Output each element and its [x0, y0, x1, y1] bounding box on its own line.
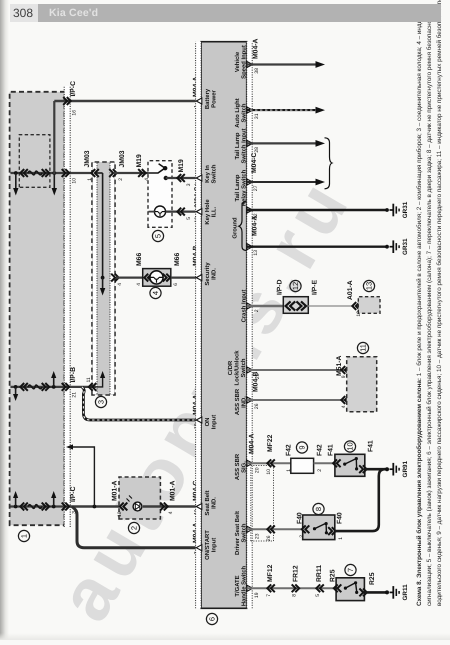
- node 5 (circled): [152, 230, 163, 241]
- wire: ASS SBR IND: [247, 399, 347, 401]
- svg-text:IND.: IND.: [240, 396, 247, 408]
- node junction: [14, 505, 18, 509]
- svg-text:9: 9: [298, 445, 307, 449]
- connector MF22: [267, 459, 275, 467]
- pin arrowheads into module (bottom pins): [247, 62, 253, 592]
- node 6 (circled): [206, 613, 217, 624]
- wire: feed down to LED: [70, 505, 131, 508]
- connector MF12: [267, 584, 275, 592]
- svg-text:JM03: JM03: [84, 150, 91, 167]
- svg-text:5: 5: [154, 234, 163, 238]
- wire: F42 to F41: [314, 462, 338, 464]
- wire: lamp stub to box edge: [149, 211, 155, 213]
- node 9 (circled): [296, 442, 307, 453]
- svg-text:M19: M19: [136, 154, 143, 167]
- pin arrowheads into module (top pins): [196, 98, 202, 551]
- svg-text:ASS SBR: ASS SBR: [234, 453, 241, 480]
- module internal labels (top row): [204, 88, 218, 560]
- svg-text:7: 7: [266, 594, 272, 597]
- svg-text:GR31: GR31: [402, 238, 409, 255]
- wire to other circuit (left arrow): [52, 173, 57, 196]
- node 11 (circled): [357, 342, 368, 353]
- svg-text:20: 20: [255, 467, 261, 473]
- node 13 (circled): [363, 280, 374, 291]
- svg-text:I/P-E: I/P-E: [312, 279, 319, 295]
- thin wire inside JM03 with right arrow: [96, 371, 105, 387]
- fuse box (interior junction block): [10, 92, 65, 525]
- joint connector JM03: [92, 162, 115, 395]
- wire: ON/START branch (thick): [72, 507, 202, 548]
- node junction (to cluster): [93, 505, 97, 509]
- wire: tail lamp switch input with arrow: [247, 140, 325, 147]
- svg-text:сигнализации; 5 – выключатель: сигнализации; 5 – выключатель (замок) за…: [426, 10, 433, 606]
- brace grouping tail lamp wires: [325, 138, 333, 189]
- svg-text:13: 13: [365, 282, 374, 290]
- svg-text:26: 26: [254, 403, 260, 409]
- wire: ground pin 13: [247, 240, 399, 253]
- svg-text:M04-C: M04-C: [251, 153, 258, 173]
- connector strip top: [196, 42, 202, 609]
- svg-text:3: 3: [186, 183, 192, 186]
- svg-text:I/P-B: I/P-B: [70, 367, 77, 383]
- svg-text:Driver Seat Belt: Driver Seat Belt: [234, 511, 241, 555]
- connector M01-A pin 4: [160, 503, 168, 511]
- connector JM03 pin 11: [89, 383, 97, 391]
- module internal labels (bottom row): [227, 45, 247, 606]
- svg-text:Switch: Switch: [240, 358, 247, 377]
- svg-text:Lock/Unlock: Lock/Unlock: [234, 350, 241, 386]
- svg-text:1: 1: [338, 537, 344, 540]
- page left edge scan shading: [0, 0, 9, 640]
- svg-text:1: 1: [286, 469, 292, 472]
- svg-text:F40: F40: [337, 512, 344, 524]
- wire: F41 to ground GR91: [365, 468, 388, 471]
- connector M51-A pin 9: [341, 366, 349, 374]
- wire: ground pin 12: [247, 204, 399, 217]
- fuse box F42: [291, 458, 314, 473]
- svg-text:MF12: MF12: [267, 564, 274, 582]
- fuse (seat belt): [20, 503, 49, 511]
- key hole illumination lamp: [154, 206, 165, 217]
- svg-text:Auto Light: Auto Light: [234, 98, 241, 127]
- svg-text:Input: Input: [210, 415, 217, 429]
- svg-text:GR31: GR31: [402, 201, 409, 218]
- svg-text:ILL.: ILL.: [210, 206, 217, 217]
- svg-text:Power: Power: [210, 89, 217, 107]
- svg-text:I/P-C: I/P-C: [70, 81, 77, 97]
- svg-text:ASS SBR: ASS SBR: [234, 388, 241, 415]
- svg-text:M04-A: M04-A: [252, 216, 259, 236]
- inline connector I/P-D / I/P-E: [283, 297, 308, 314]
- svg-text:Tail Lamp: Tail Lamp: [234, 174, 241, 201]
- thin wire to airbag module: [308, 305, 352, 307]
- wire: crash input: [247, 305, 285, 308]
- wire: battery feed jog to I/P-C pin 16: [53, 101, 55, 174]
- wire: seat belt feed from fuse box: [11, 505, 71, 507]
- svg-text:ON/START: ON/START: [204, 530, 211, 560]
- wire to other circuit (left arrow): [13, 173, 18, 196]
- svg-text:M66: M66: [136, 253, 143, 266]
- svg-text:3: 3: [97, 400, 106, 404]
- svg-text:28: 28: [254, 147, 260, 153]
- JM03 internal bus wire: [96, 172, 103, 174]
- seat belt warning LED: [127, 496, 142, 511]
- svg-text:Схема 8. Электронный блок упра: Схема 8. Электронный блок управления эле…: [416, 3, 423, 606]
- svg-text:10: 10: [346, 442, 355, 450]
- wire: key-in switch to module pin 4: [166, 177, 202, 179]
- svg-text:13: 13: [253, 250, 259, 256]
- node 10 (circled): [344, 441, 355, 452]
- wire arrow to other circuit: [13, 387, 18, 401]
- svg-text:27: 27: [253, 185, 259, 191]
- dotted connector shell between pins 20 and 23: [251, 466, 274, 542]
- svg-text:8: 8: [314, 507, 323, 511]
- connector M19 pin 4: [138, 169, 146, 177]
- svg-text:2: 2: [130, 526, 139, 530]
- security indicator circuit wire from JM03 pin 4: [111, 274, 119, 282]
- fuse (battery feed): [19, 135, 50, 188]
- node junction below fuse: [52, 171, 56, 175]
- wire: ON input jog to module pin 13 (two-tone): [82, 387, 202, 420]
- svg-text:A01-A: A01-A: [347, 280, 354, 300]
- wire: R25 to ground GR11: [364, 591, 388, 594]
- svg-text:SIG.: SIG.: [240, 461, 247, 473]
- svg-text:Battery: Battery: [204, 88, 211, 109]
- svg-text:19: 19: [254, 592, 260, 598]
- seat belt indicator M01-A box: [119, 477, 160, 519]
- svg-text:GR11: GR11: [402, 584, 409, 601]
- connector M01-A pin 10: [120, 503, 128, 511]
- svg-text:Key In: Key In: [204, 165, 211, 183]
- node 1 (circled): [18, 530, 29, 541]
- svg-text:4: 4: [136, 283, 142, 286]
- connector M51-A pin 4: [341, 396, 349, 404]
- svg-text:26: 26: [266, 535, 272, 541]
- switch contacts (key in switch): [148, 164, 168, 180]
- node junction: [52, 385, 56, 389]
- svg-text:6: 6: [173, 283, 179, 286]
- wire arrow right to other circuit: [51, 371, 56, 387]
- svg-text:C/DR: C/DR: [227, 360, 234, 375]
- svg-text:Key Hole: Key Hole: [204, 199, 211, 225]
- wire: battery feed from fuse box: [11, 172, 71, 174]
- passenger SBR module box M51-A: [347, 357, 377, 412]
- svg-text:M01-A: M01-A: [170, 481, 177, 501]
- connector I/P-C pin 16: [63, 97, 70, 105]
- wire: key-in feed through I/P-C pin 10: [70, 172, 91, 174]
- svg-text:8: 8: [292, 594, 298, 597]
- svg-text:16: 16: [72, 110, 78, 116]
- svg-text:JM03: JM03: [119, 150, 126, 167]
- svg-text:Vehicle: Vehicle: [234, 51, 241, 72]
- node 3 (circled): [95, 396, 106, 407]
- JM03 pin 2 connector: [109, 169, 117, 177]
- connector strip bottom: [247, 42, 253, 609]
- connector M19 pin 5: [177, 208, 185, 216]
- wire: tail lamp relay switch with arrow: [247, 179, 325, 186]
- node junction: [14, 385, 18, 389]
- svg-text:Tail Lamp: Tail Lamp: [234, 132, 241, 159]
- svg-text:IND.: IND.: [210, 268, 217, 280]
- node 2 (circled): [128, 522, 139, 533]
- svg-text:M04-A: M04-A: [253, 39, 260, 59]
- svg-text:M19: M19: [178, 159, 185, 172]
- svg-text:Switch: Switch: [210, 164, 217, 183]
- svg-text:FR12: FR12: [293, 565, 300, 582]
- svg-text:F42: F42: [286, 444, 293, 456]
- connector FR12: [292, 584, 300, 592]
- connector M19 pin 3: [177, 174, 185, 182]
- node junction: [52, 505, 56, 509]
- node junction above battery fuse: [14, 171, 18, 175]
- connector (driver belt): [267, 525, 275, 533]
- node 4 (circled): [150, 287, 161, 298]
- JM03 pin 1 connector: [91, 169, 99, 177]
- svg-text:4: 4: [168, 511, 174, 514]
- svg-text:Seat Belt: Seat Belt: [204, 490, 211, 515]
- svg-text:Switch: Switch: [240, 523, 247, 542]
- svg-text:38: 38: [254, 68, 260, 74]
- svg-text:Handle Switch: Handle Switch: [240, 565, 247, 606]
- svg-text:M04-B: M04-B: [253, 372, 260, 392]
- connector A01-A pin 13: [352, 302, 360, 310]
- wire: ON feed from fuse box: [11, 386, 71, 388]
- svg-text:4: 4: [151, 291, 160, 295]
- svg-text:I/P-D: I/P-D: [277, 279, 284, 295]
- svg-text:Input: Input: [210, 538, 217, 552]
- key-in switch M19 box: [148, 161, 172, 228]
- svg-text:10: 10: [266, 469, 272, 475]
- I/P junction connector strip: [64, 86, 70, 527]
- connector RR11: [316, 584, 324, 592]
- svg-text:F41: F41: [368, 440, 375, 452]
- svg-text:Switch Input: Switch Input: [240, 128, 247, 163]
- svg-text:M51-A: M51-A: [336, 356, 343, 376]
- svg-text:Speed Input: Speed Input: [240, 45, 247, 79]
- svg-text:F42: F42: [317, 444, 324, 456]
- tailgate handle switch box R25: [334, 578, 367, 601]
- wire: ASS SBR SIG: [247, 462, 292, 464]
- svg-text:Crash Input: Crash Input: [240, 290, 247, 323]
- svg-text:F41: F41: [328, 444, 335, 456]
- wire: C/DR lock-unlock switch: [247, 369, 347, 371]
- driver seat belt switch box F40: [302, 515, 336, 540]
- wire arrow right: [13, 491, 18, 507]
- svg-text:1: 1: [87, 178, 93, 181]
- svg-text:23: 23: [255, 533, 261, 539]
- connector I/P-C pin 3: [62, 503, 69, 511]
- wire: F40 to ground junction: [335, 469, 385, 531]
- thin wire branch with up arrow: [66, 444, 94, 506]
- wire: lamp to module pin 10: [166, 211, 202, 213]
- wire: auto light switch (two-tone): [247, 107, 325, 114]
- header page bar: [0, 0, 450, 30]
- svg-text:IND.: IND.: [210, 497, 217, 509]
- wire: vehicle speed output with arrow: [247, 61, 325, 68]
- wire: driver seat belt switch: [247, 528, 303, 530]
- svg-text:Ground: Ground: [232, 217, 239, 239]
- wire: M66 to module pin 16: [171, 277, 202, 279]
- svg-text:Switch: Switch: [240, 103, 247, 122]
- security indicator M66: [143, 269, 171, 287]
- svg-text:11: 11: [359, 344, 368, 352]
- wire: JM03 to M19 key-in switch: [114, 172, 154, 174]
- svg-text:1: 1: [20, 534, 29, 538]
- svg-text:21: 21: [72, 392, 78, 398]
- svg-text:Security: Security: [204, 262, 211, 286]
- svg-text:10: 10: [72, 178, 78, 184]
- node bus junction: [101, 276, 105, 280]
- svg-text:водительского сиденья; 9 – дат: водительского сиденья; 9 – датчик нагруз…: [436, 0, 443, 606]
- svg-text:MF22: MF22: [267, 434, 274, 452]
- wire: T/GATE handle switch: [247, 587, 338, 589]
- fuse (ON): [20, 383, 49, 391]
- svg-text:M04-A: M04-A: [249, 434, 256, 454]
- node 8 (circled): [313, 503, 324, 514]
- passenger belt switch box F41: [333, 454, 367, 476]
- svg-text:11: 11: [86, 377, 92, 382]
- connector I/P-B pin 21: [62, 383, 69, 391]
- svg-text:I/P-C: I/P-C: [70, 486, 77, 502]
- svg-text:5: 5: [186, 217, 192, 220]
- svg-text:31: 31: [254, 113, 260, 119]
- svg-text:T/GATE: T/GATE: [234, 575, 241, 596]
- svg-text:Relay Switch: Relay Switch: [240, 169, 247, 206]
- airbag control module box: [358, 297, 380, 314]
- bus continuation arrow: [100, 278, 105, 296]
- svg-text:5: 5: [315, 594, 321, 597]
- wire: feed below strip: [70, 386, 96, 388]
- svg-text:M01-A: M01-A: [112, 481, 119, 501]
- svg-text:M66: M66: [174, 253, 181, 266]
- svg-text:ON: ON: [204, 418, 211, 427]
- svg-text:7: 7: [346, 568, 355, 572]
- brace for ground label: [239, 202, 247, 251]
- svg-text:2: 2: [118, 178, 124, 181]
- svg-text:6: 6: [208, 617, 217, 621]
- svg-text:4: 4: [117, 283, 123, 286]
- svg-text:2: 2: [317, 469, 323, 472]
- svg-text:12: 12: [291, 282, 300, 290]
- node 12 (circled): [290, 280, 301, 291]
- wire arrow right: [51, 491, 56, 507]
- svg-text:RR11: RR11: [316, 565, 323, 582]
- svg-text:R25: R25: [369, 572, 376, 585]
- svg-text:2: 2: [254, 309, 260, 312]
- node 7 (circled): [345, 564, 356, 575]
- svg-text:10: 10: [117, 511, 123, 517]
- svg-text:GR91: GR91: [402, 460, 409, 477]
- wire: battery power down to module pin 1: [54, 100, 202, 102]
